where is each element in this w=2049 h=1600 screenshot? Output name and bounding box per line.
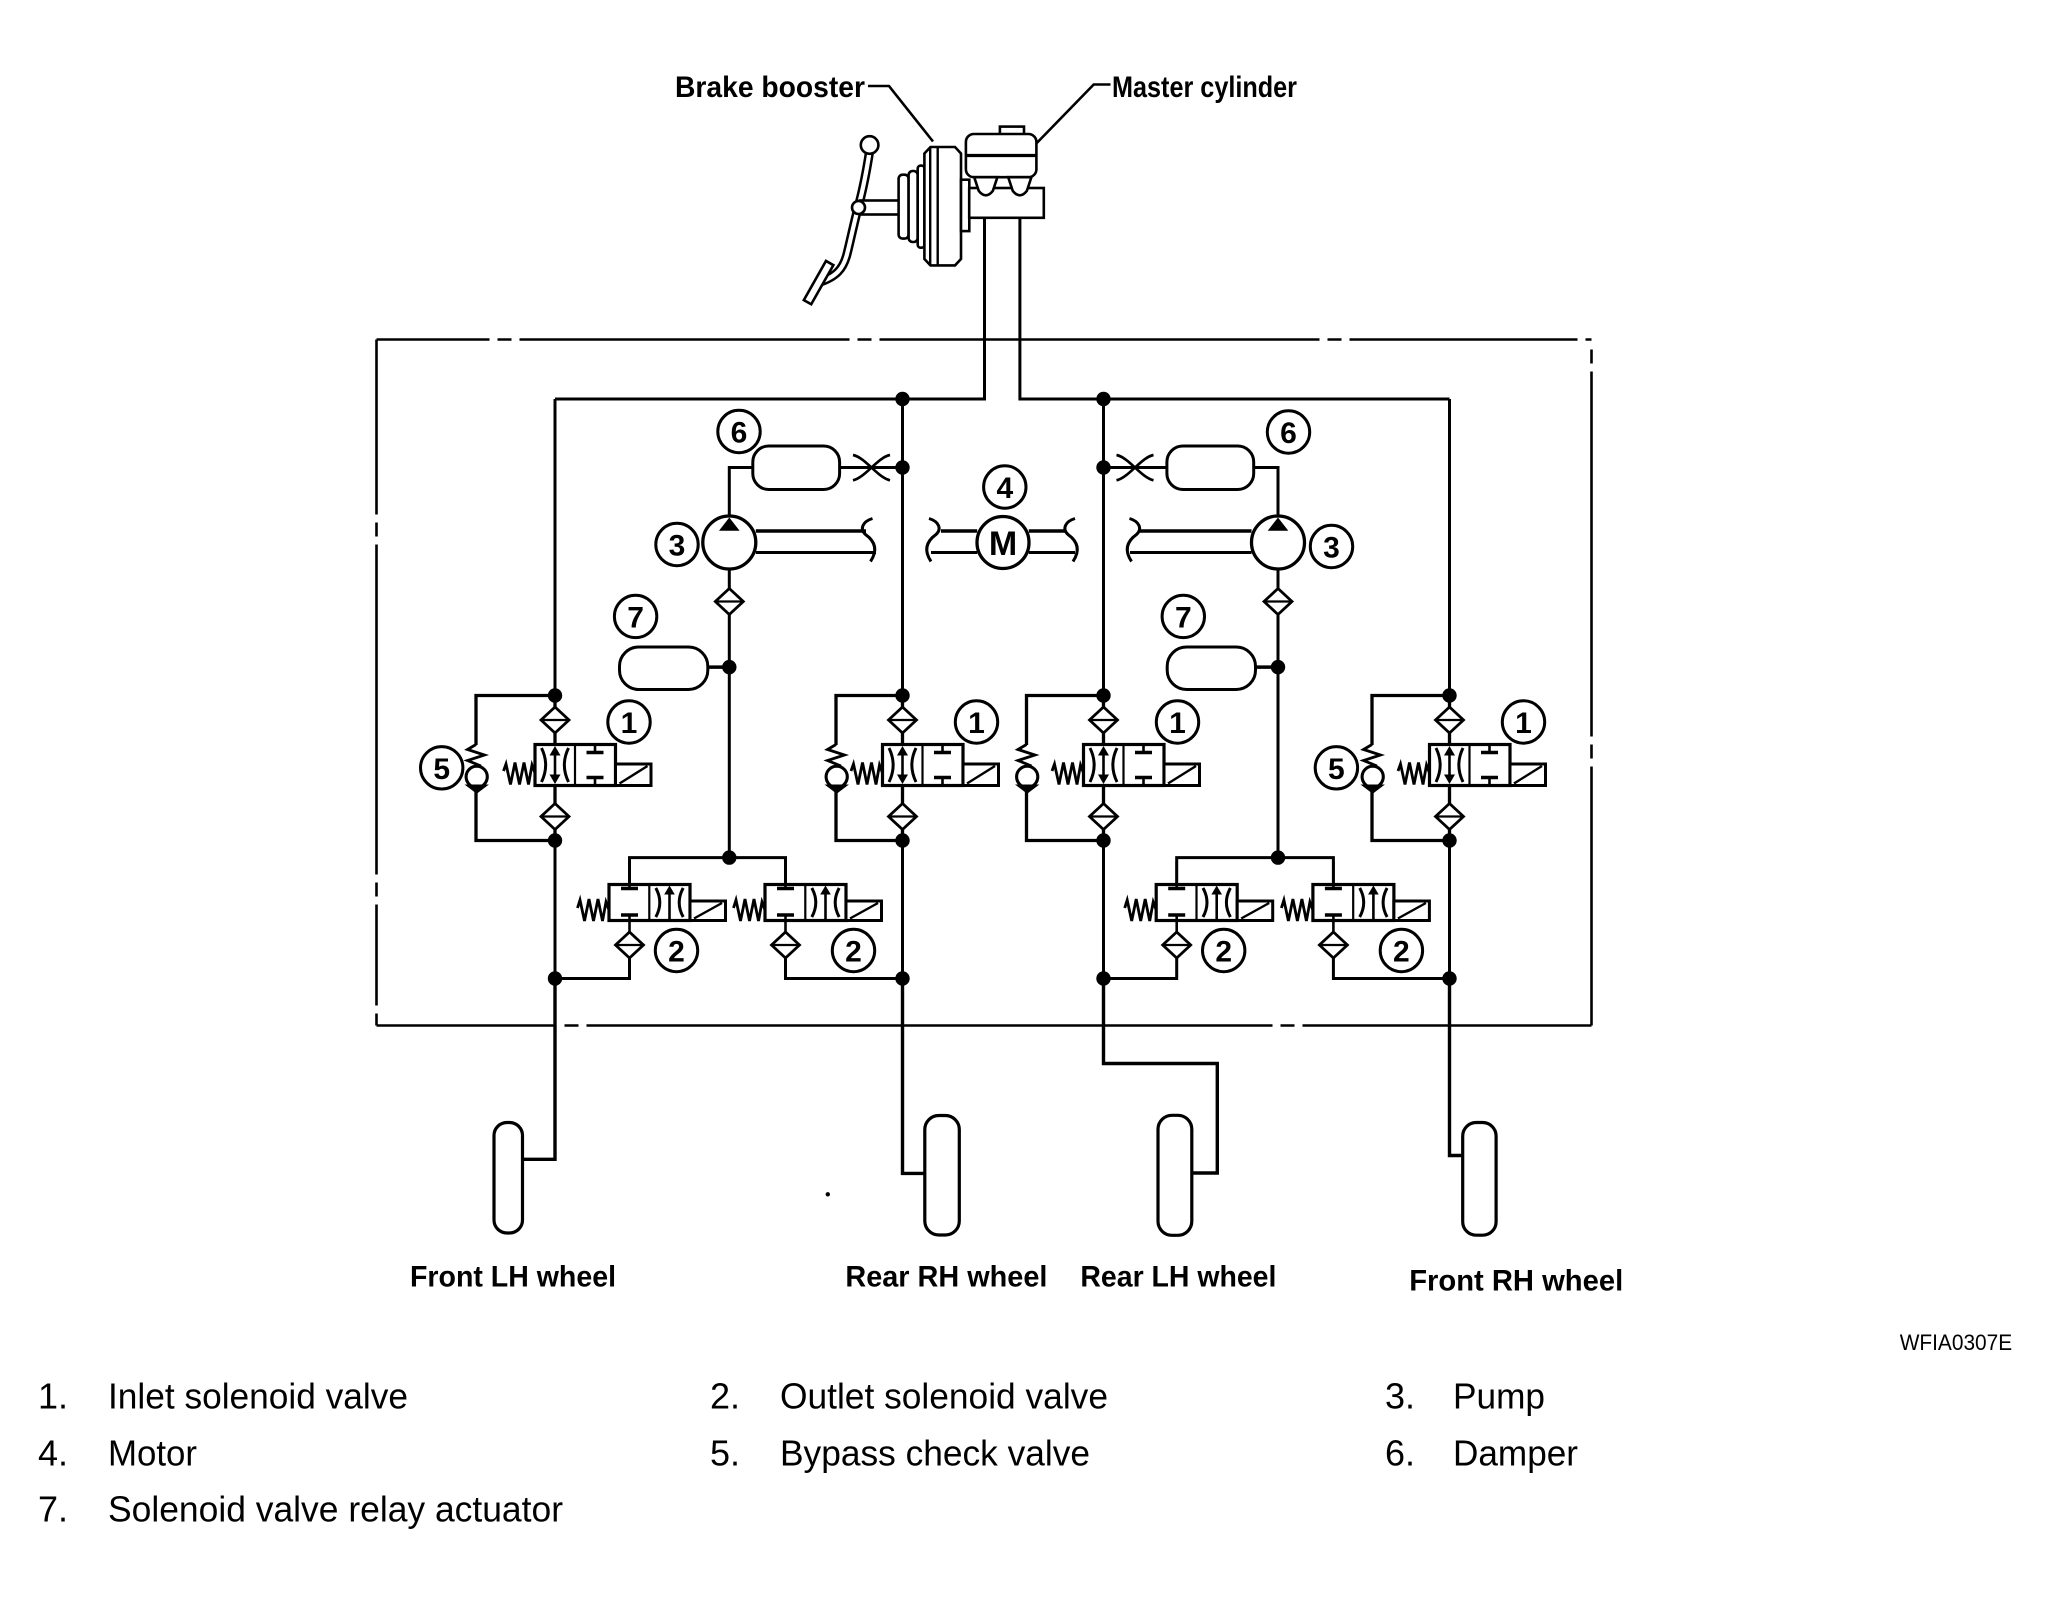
inlet valve rear-LH blocked cell <box>1142 746 1145 753</box>
rear LH wheel <box>1158 1115 1192 1235</box>
pump left flow triangle <box>719 518 740 531</box>
bypass check valve seat front-LH <box>465 785 489 794</box>
rear RH wheel <box>925 1116 960 1236</box>
svg-text:Master cylinder: Master cylinder <box>1112 71 1297 104</box>
wire outlet feed bus right <box>1177 858 1334 885</box>
bypass check valve spring front-LH <box>468 745 485 767</box>
circle label 7 right <box>1162 595 1204 637</box>
svg-text:Brake booster: Brake booster <box>675 71 865 104</box>
master cylinder outlet funnels <box>974 177 997 195</box>
circle label 4 <box>984 466 1026 508</box>
front LH wheel <box>494 1123 523 1234</box>
brake pedal arm <box>817 150 870 283</box>
circle label 3 left <box>656 523 698 565</box>
svg-text:1.: 1. <box>38 1376 68 1417</box>
svg-text:Damper: Damper <box>1453 1433 1578 1474</box>
junction dot top of inlet valve rear-RH <box>895 688 909 702</box>
junction dot damper right <box>1096 460 1110 474</box>
svg-text:7: 7 <box>627 601 644 634</box>
junction dot top of inlet valve front-LH <box>548 688 562 702</box>
svg-text:2: 2 <box>845 935 862 968</box>
wire to rear LH wheel <box>1104 979 1218 1174</box>
brake booster bellows <box>899 175 909 239</box>
brake pedal top pin <box>861 136 879 154</box>
pump left circle <box>703 516 756 569</box>
outlet valve rear-LH open-path cell <box>1203 888 1207 917</box>
circle label 1 inlet solenoid valve front-RH <box>1502 701 1544 743</box>
circle label 1 inlet solenoid valve front-LH <box>608 701 650 743</box>
leader line from Brake booster label <box>868 86 933 142</box>
wire outlet valve rear-LH drain <box>1104 958 1177 979</box>
circle label 6 right <box>1267 411 1309 453</box>
outlet valve rear-LH solenoid <box>1237 901 1273 921</box>
junction dot top of inlet valve rear-LH <box>1096 688 1110 702</box>
svg-text:Front RH wheel: Front RH wheel <box>1409 1265 1623 1298</box>
wire outlet valve rear-RH drain <box>786 958 903 979</box>
filter diamond below inlet valve rear-LH <box>1090 804 1118 830</box>
wire front-LH wheel line upper <box>554 399 557 696</box>
pump left drive shaft <box>756 529 866 533</box>
outlet valve rear-RH blocked cell <box>784 862 787 889</box>
pump left shaft break <box>862 519 874 562</box>
filter diamond below outlet valve front-LH <box>616 932 644 958</box>
master cylinder body <box>969 188 1044 218</box>
motor right shaft <box>1029 529 1065 533</box>
wire to rear RH wheel <box>903 979 925 1174</box>
svg-text:1: 1 <box>968 707 985 740</box>
svg-text:7.: 7. <box>38 1489 68 1530</box>
wire inlet branch vertical rear-RH <box>901 696 904 841</box>
junction dot rear-LH feed <box>1096 392 1110 406</box>
wire inlet-to-bus 3 <box>1102 841 1105 979</box>
damper left (6) <box>753 446 840 490</box>
wire outlet feed bus left <box>630 858 786 885</box>
outlet valve rear-RH solenoid <box>846 901 882 921</box>
filter diamond below pump left <box>715 589 743 615</box>
brake booster shell <box>924 147 961 265</box>
inlet valve rear-LH return spring <box>1052 763 1084 785</box>
leader line from Master cylinder label <box>1037 85 1111 144</box>
svg-text:1: 1 <box>621 707 638 740</box>
junction dot relay left <box>722 660 736 674</box>
inlet solenoid valve front-LH body <box>535 745 616 786</box>
svg-text:2: 2 <box>668 935 685 968</box>
filter diamond above inlet valve front-RH <box>1436 707 1464 733</box>
junction dot rear-RH feed <box>895 392 909 406</box>
inlet valve rear-RH return spring <box>851 763 883 785</box>
inlet valve rear-RH solenoid <box>963 764 999 786</box>
svg-text:3: 3 <box>1323 531 1340 564</box>
motor right shaft break <box>1065 519 1077 562</box>
wire bypass loop rear-RH <box>836 696 903 746</box>
circle label 3 right <box>1310 525 1352 567</box>
svg-text:1: 1 <box>1515 707 1532 740</box>
svg-text:6: 6 <box>731 416 748 449</box>
circle label 2 outlet solenoid valve front-LH <box>655 929 697 971</box>
junction dot bottom of inlet valve rear-LH <box>1096 833 1110 847</box>
bypass check valve ball rear-RH <box>826 766 847 787</box>
inlet valve front-LH solenoid <box>616 764 652 786</box>
outlet valve front-LH return spring <box>578 899 610 921</box>
wire master cylinder secondary line <box>1020 218 1450 399</box>
svg-text:5: 5 <box>1328 753 1345 786</box>
wire inlet-to-bus 1 <box>554 841 557 979</box>
inlet solenoid valve rear-LH body <box>1084 745 1165 786</box>
wire inlet branch vertical front-RH <box>1448 696 1451 841</box>
master cylinder reservoir <box>966 134 1037 177</box>
svg-text:Rear RH wheel: Rear RH wheel <box>845 1261 1047 1294</box>
wire bypass loop front-RH <box>1372 696 1450 746</box>
svg-text:6.: 6. <box>1385 1433 1415 1474</box>
junction dot relay right <box>1271 660 1285 674</box>
svg-text:7: 7 <box>1175 601 1192 634</box>
booster push rod <box>860 201 899 215</box>
inlet valve front-LH return spring <box>504 763 536 785</box>
outlet valve front-RH return spring <box>1281 899 1313 921</box>
wire to front RH wheel <box>1450 979 1463 1156</box>
junction dot bottom of inlet valve rear-RH <box>895 833 909 847</box>
filter diamond below inlet valve rear-RH <box>889 804 917 830</box>
outlet valve rear-LH return spring <box>1125 899 1157 921</box>
outlet solenoid valve front-RH body <box>1313 885 1394 921</box>
stray dot artifact <box>826 1192 830 1196</box>
circle label 5 bypass check valve front-RH <box>1315 747 1357 789</box>
svg-text:Bypass check valve: Bypass check valve <box>780 1433 1090 1474</box>
wire pump left outlet <box>728 569 731 858</box>
wire rear-LH wheel line upper <box>1102 399 1105 696</box>
junction dot wheel line 1 bottom <box>548 971 562 985</box>
front RH wheel <box>1463 1123 1496 1236</box>
outlet valve front-RH solenoid <box>1394 901 1430 921</box>
filter diamond above inlet valve rear-LH <box>1090 707 1118 733</box>
svg-text:2.: 2. <box>710 1376 740 1417</box>
pedal pivot pin <box>852 201 865 214</box>
bypass check valve spring front-RH <box>1364 745 1381 767</box>
wire outlet valve front-RH drain <box>1333 958 1449 979</box>
circle label 2 outlet solenoid valve front-RH <box>1380 929 1422 971</box>
svg-text:Inlet solenoid valve: Inlet solenoid valve <box>108 1376 408 1417</box>
master cylinder connector <box>961 180 969 231</box>
restrictor right <box>1104 466 1167 469</box>
pump right drive shaft <box>1140 529 1252 533</box>
svg-text:4.: 4. <box>38 1433 68 1474</box>
junction dot wheel line 2 bottom <box>895 971 909 985</box>
inlet valve front-LH blocked cell <box>594 746 597 753</box>
outlet solenoid valve rear-LH body <box>1156 885 1237 921</box>
svg-text:2: 2 <box>1393 935 1410 968</box>
restrictor left <box>840 466 903 469</box>
wire front-RH wheel line upper <box>1448 399 1451 696</box>
inlet valve front-RH solenoid <box>1510 764 1546 786</box>
outlet valve front-LH solenoid <box>690 901 726 921</box>
outlet valve front-LH open-path cell <box>656 888 660 917</box>
outlet valve rear-RH return spring <box>734 899 766 921</box>
svg-text:5.: 5. <box>710 1433 740 1474</box>
svg-text:Rear LH wheel: Rear LH wheel <box>1080 1261 1276 1294</box>
wire inlet-to-bus 4 <box>1448 841 1451 979</box>
inlet valve rear-RH blocked cell <box>941 746 944 753</box>
svg-text:4: 4 <box>996 472 1013 505</box>
filter diamond below outlet valve front-RH <box>1319 932 1347 958</box>
damper left branch wire <box>729 468 753 517</box>
circle label 7 left <box>614 595 656 637</box>
svg-text:2: 2 <box>1215 935 1232 968</box>
junction dot top of inlet valve front-RH <box>1442 688 1456 702</box>
wire inlet-to-bus 2 <box>901 841 904 979</box>
svg-text:Solenoid valve relay actuator: Solenoid valve relay actuator <box>108 1489 563 1530</box>
bypass check valve spring rear-LH <box>1018 745 1035 767</box>
filter diamond below outlet valve rear-RH <box>772 932 800 958</box>
bypass check valve seat front-RH <box>1361 785 1385 794</box>
circle label 5 bypass check valve front-LH <box>421 747 463 789</box>
inlet solenoid valve front-RH body <box>1430 745 1511 786</box>
circle label 1 inlet solenoid valve rear-RH <box>955 701 997 743</box>
outlet valve front-RH blocked cell <box>1332 862 1335 889</box>
damper right (6) <box>1167 446 1254 490</box>
junction dot pump bus left <box>722 850 736 864</box>
filter diamond below inlet valve front-LH <box>541 804 569 830</box>
motor left shaft break <box>927 519 939 562</box>
filter diamond above inlet valve rear-RH <box>889 707 917 733</box>
svg-text:5: 5 <box>433 753 450 786</box>
svg-text:3.: 3. <box>1385 1376 1415 1417</box>
solenoid valve relay actuator right (7) <box>1167 647 1255 690</box>
svg-text:M: M <box>989 525 1017 563</box>
circle label 6 left <box>718 410 760 452</box>
wire master cylinder primary line <box>555 218 985 399</box>
inlet valve rear-LH open-path cell <box>1090 748 1094 782</box>
bypass check valve seat rear-LH <box>1015 785 1039 794</box>
bypass check valve seat rear-RH <box>825 785 849 794</box>
motor left shaft <box>941 529 977 533</box>
svg-text:Pump: Pump <box>1453 1376 1545 1417</box>
junction dot damper left <box>895 460 909 474</box>
bypass check valve ball front-LH <box>466 766 487 787</box>
svg-text:Motor: Motor <box>108 1433 197 1474</box>
svg-text:1: 1 <box>1169 707 1186 740</box>
inlet valve front-LH open-path cell <box>542 748 546 782</box>
circle label 1 inlet solenoid valve rear-LH <box>1156 701 1198 743</box>
outlet valve front-RH open-path cell <box>1360 888 1364 917</box>
wire pump right outlet <box>1277 569 1280 858</box>
inlet solenoid valve rear-RH body <box>883 745 964 786</box>
circle label 2 outlet solenoid valve rear-LH <box>1203 929 1245 971</box>
pump right circle <box>1252 516 1305 569</box>
pump right shaft break <box>1127 519 1139 562</box>
inlet valve rear-LH solenoid <box>1164 764 1200 786</box>
outlet valve front-LH blocked cell <box>628 862 631 889</box>
inlet valve front-RH open-path cell <box>1436 748 1440 782</box>
master cylinder reservoir cap <box>1000 127 1024 135</box>
motor (4) <box>977 517 1029 569</box>
wire bypass loop rear-LH <box>1027 696 1104 746</box>
bypass check valve spring rear-RH <box>828 745 845 767</box>
junction dot pump bus right <box>1271 850 1285 864</box>
wire rear-RH wheel line upper <box>901 399 904 696</box>
wire inlet branch vertical rear-LH <box>1102 696 1105 841</box>
junction dot bottom of inlet valve front-RH <box>1442 833 1456 847</box>
filter diamond below inlet valve front-RH <box>1436 804 1464 830</box>
outlet solenoid valve front-LH body <box>609 885 690 921</box>
pump right flow triangle <box>1268 518 1289 531</box>
wire to front LH wheel <box>523 979 556 1160</box>
brake pedal pad <box>804 261 834 304</box>
junction dot wheel line 4 bottom <box>1442 971 1456 985</box>
inlet valve rear-RH open-path cell <box>889 748 893 782</box>
svg-text:3: 3 <box>669 529 686 562</box>
solenoid valve relay actuator left (7) <box>620 647 708 690</box>
svg-text:6: 6 <box>1280 417 1297 450</box>
svg-text:Outlet solenoid valve: Outlet solenoid valve <box>780 1376 1108 1417</box>
filter diamond below pump right <box>1264 589 1292 615</box>
wire outlet valve front-LH drain <box>555 958 630 979</box>
ABS actuator boundary (dash-dot border) <box>377 340 1592 1026</box>
filter diamond above inlet valve front-LH <box>541 707 569 733</box>
bypass check valve ball front-RH <box>1362 766 1383 787</box>
svg-text:Front LH wheel: Front LH wheel <box>410 1261 616 1294</box>
outlet solenoid valve rear-RH body <box>765 885 846 921</box>
svg-text:WFIA0307E: WFIA0307E <box>1900 1330 2013 1355</box>
junction dot wheel line 3 bottom <box>1096 971 1110 985</box>
wire bypass loop front-LH <box>476 696 555 746</box>
outlet valve rear-LH blocked cell <box>1175 862 1178 889</box>
bypass check valve ball rear-LH <box>1017 766 1038 787</box>
junction dot bottom of inlet valve front-LH <box>548 833 562 847</box>
filter diamond below outlet valve rear-LH <box>1163 932 1191 958</box>
damper right branch wire <box>1254 468 1278 517</box>
circle label 2 outlet solenoid valve rear-RH <box>832 929 874 971</box>
inlet valve front-RH return spring <box>1398 763 1430 785</box>
inlet valve front-RH blocked cell <box>1488 746 1491 753</box>
wire inlet branch vertical front-LH <box>553 696 556 841</box>
outlet valve rear-RH open-path cell <box>812 888 816 917</box>
